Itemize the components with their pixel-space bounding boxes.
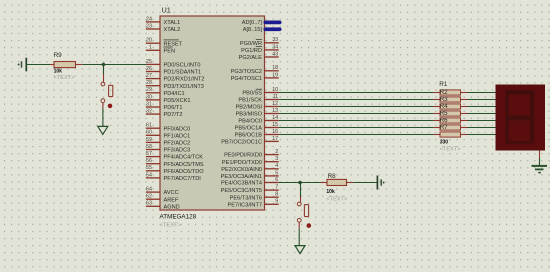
svg-text:10k: 10k: [326, 189, 335, 195]
svg-text:43: 43: [272, 51, 278, 57]
svg-text:PEN: PEN: [164, 48, 176, 54]
svg-text:5: 5: [275, 170, 278, 176]
svg-text:AD[0..7]: AD[0..7]: [242, 20, 263, 26]
svg-text:PG0/WR: PG0/WR: [240, 41, 262, 47]
svg-text:16: 16: [272, 129, 278, 135]
svg-text:330: 330: [440, 139, 449, 145]
svg-text:10: 10: [272, 87, 278, 93]
svg-text:64: 64: [146, 187, 152, 193]
svg-text:18: 18: [272, 65, 278, 71]
svg-text:PE0/PDI/RXD0: PE0/PDI/RXD0: [224, 153, 262, 159]
svg-text:13: 13: [272, 108, 278, 114]
svg-text:<TEXT>: <TEXT>: [54, 75, 75, 81]
svg-text:R3: R3: [440, 96, 448, 103]
svg-text:RESET: RESET: [164, 41, 183, 47]
svg-text:PE1/PDO/TXD0: PE1/PDO/TXD0: [222, 160, 262, 166]
svg-text:4: 4: [275, 163, 278, 169]
svg-text:PD5/XCK1: PD5/XCK1: [164, 98, 191, 104]
svg-text:R6: R6: [440, 117, 448, 124]
svg-text:PF6/ADC6/TDO: PF6/ADC6/TDO: [164, 169, 205, 175]
svg-text:PD4/IC1: PD4/IC1: [164, 91, 185, 97]
svg-text:PG2/ALE: PG2/ALE: [239, 55, 263, 61]
svg-text:6: 6: [275, 177, 278, 183]
svg-text:R7: R7: [440, 124, 448, 131]
svg-text:59: 59: [146, 137, 152, 143]
svg-text:26: 26: [146, 66, 152, 72]
svg-text:33: 33: [272, 37, 278, 43]
svg-text:PB3/MISO: PB3/MISO: [236, 112, 263, 118]
svg-text:PE2/XCK0/AIN0: PE2/XCK0/AIN0: [221, 167, 262, 173]
svg-text:<TEXT>: <TEXT>: [160, 222, 182, 228]
svg-text:PD2/RXD1/INT2: PD2/RXD1/INT2: [164, 77, 205, 83]
svg-text:57: 57: [146, 151, 152, 157]
svg-text:8: 8: [275, 192, 278, 198]
svg-text:32: 32: [146, 109, 152, 115]
svg-text:PG4/TOSC1: PG4/TOSC1: [231, 76, 262, 82]
svg-text:PD0/SCL/INT0: PD0/SCL/INT0: [164, 63, 201, 69]
svg-text:9: 9: [275, 199, 278, 205]
svg-text:<TEXT>: <TEXT>: [440, 146, 461, 152]
svg-text:<TEXT>: <TEXT>: [326, 196, 347, 202]
svg-text:PB0/SS: PB0/SS: [242, 91, 262, 97]
svg-text:2: 2: [275, 149, 278, 155]
svg-text:12: 12: [272, 101, 278, 107]
svg-text:54: 54: [146, 172, 152, 178]
svg-text:PF7/ADC7/TDI: PF7/ADC7/TDI: [164, 176, 202, 182]
svg-text:PD3/TXD1/INT3: PD3/TXD1/INT3: [164, 84, 204, 90]
svg-text:U1: U1: [162, 6, 171, 15]
svg-text:R5: R5: [440, 110, 448, 117]
svg-text:AVCC: AVCC: [164, 190, 179, 196]
svg-text:20: 20: [146, 38, 152, 44]
svg-text:7: 7: [275, 185, 278, 191]
svg-text:PF2/ADC2: PF2/ADC2: [164, 141, 191, 147]
svg-text:55: 55: [146, 165, 152, 171]
svg-text:24: 24: [146, 16, 152, 22]
svg-text:PE5/OC3C/INT5: PE5/OC3C/INT5: [221, 188, 262, 194]
svg-text:PG3/TOSC2: PG3/TOSC2: [231, 69, 262, 75]
svg-text:R8: R8: [328, 173, 337, 180]
svg-text:PE6/T3/INT6: PE6/T3/INT6: [230, 195, 262, 201]
svg-text:34: 34: [272, 44, 278, 50]
svg-text:PB4/OC0: PB4/OC0: [238, 119, 262, 125]
svg-text:PB1/SCK: PB1/SCK: [238, 98, 262, 104]
svg-text:PE3/OC3A/AIN1: PE3/OC3A/AIN1: [221, 174, 262, 180]
svg-text:15: 15: [272, 122, 278, 128]
svg-text:XTAL2: XTAL2: [164, 27, 181, 33]
svg-text:PE7/IC3/INT7: PE7/IC3/INT7: [227, 202, 262, 208]
svg-text:62: 62: [146, 194, 152, 200]
svg-text:R9: R9: [54, 52, 63, 59]
svg-text:PG1/RD: PG1/RD: [241, 48, 262, 54]
svg-text:PD1/SDA/INT1: PD1/SDA/INT1: [164, 70, 202, 76]
svg-text:29: 29: [146, 87, 152, 93]
svg-text:A[8..15]: A[8..15]: [243, 27, 263, 33]
svg-text:25: 25: [146, 59, 152, 65]
svg-text:R1: R1: [439, 81, 448, 88]
svg-text:14: 14: [272, 115, 278, 121]
svg-text:31: 31: [146, 101, 152, 107]
svg-text:61: 61: [146, 123, 152, 129]
svg-text:PF0/ADC0: PF0/ADC0: [164, 126, 191, 132]
svg-text:28: 28: [146, 80, 152, 86]
svg-text:ATMEGA128: ATMEGA128: [160, 214, 197, 221]
svg-text:PB7/OC2/OC1C: PB7/OC2/OC1C: [221, 140, 262, 146]
svg-text:PF1/ADC1: PF1/ADC1: [164, 133, 191, 139]
svg-text:PD6/T1: PD6/T1: [164, 105, 183, 111]
svg-text:11: 11: [273, 94, 279, 100]
svg-text:R4: R4: [440, 103, 448, 110]
svg-text:56: 56: [146, 158, 152, 164]
svg-text:PB6/OC1B: PB6/OC1B: [235, 133, 263, 139]
svg-text:PB5/OC1A: PB5/OC1A: [235, 126, 263, 132]
svg-text:27: 27: [146, 73, 152, 79]
svg-text:PE4/OC3B/INT4: PE4/OC3B/INT4: [221, 181, 262, 187]
svg-text:23: 23: [146, 23, 152, 29]
svg-text:AGND: AGND: [164, 204, 180, 210]
svg-text:3: 3: [275, 156, 278, 162]
svg-text:19: 19: [272, 72, 278, 78]
svg-text:PF5/ADC5/TMS: PF5/ADC5/TMS: [164, 162, 204, 168]
svg-text:AREF: AREF: [164, 197, 180, 203]
svg-text:PF4/ADC4/TCK: PF4/ADC4/TCK: [164, 155, 204, 161]
svg-text:PB2/MOSI: PB2/MOSI: [236, 105, 263, 111]
svg-text:R2: R2: [440, 89, 448, 96]
svg-text:PF3/ADC3: PF3/ADC3: [164, 148, 191, 154]
svg-text:XTAL1: XTAL1: [164, 20, 181, 26]
svg-text:PD7/T2: PD7/T2: [164, 112, 183, 118]
svg-text:10k: 10k: [54, 69, 63, 75]
svg-text:30: 30: [146, 94, 152, 100]
svg-text:1: 1: [149, 45, 152, 51]
svg-text:58: 58: [146, 144, 152, 150]
svg-text:17: 17: [272, 136, 278, 142]
svg-text:60: 60: [146, 130, 152, 136]
svg-text:63: 63: [146, 201, 152, 207]
